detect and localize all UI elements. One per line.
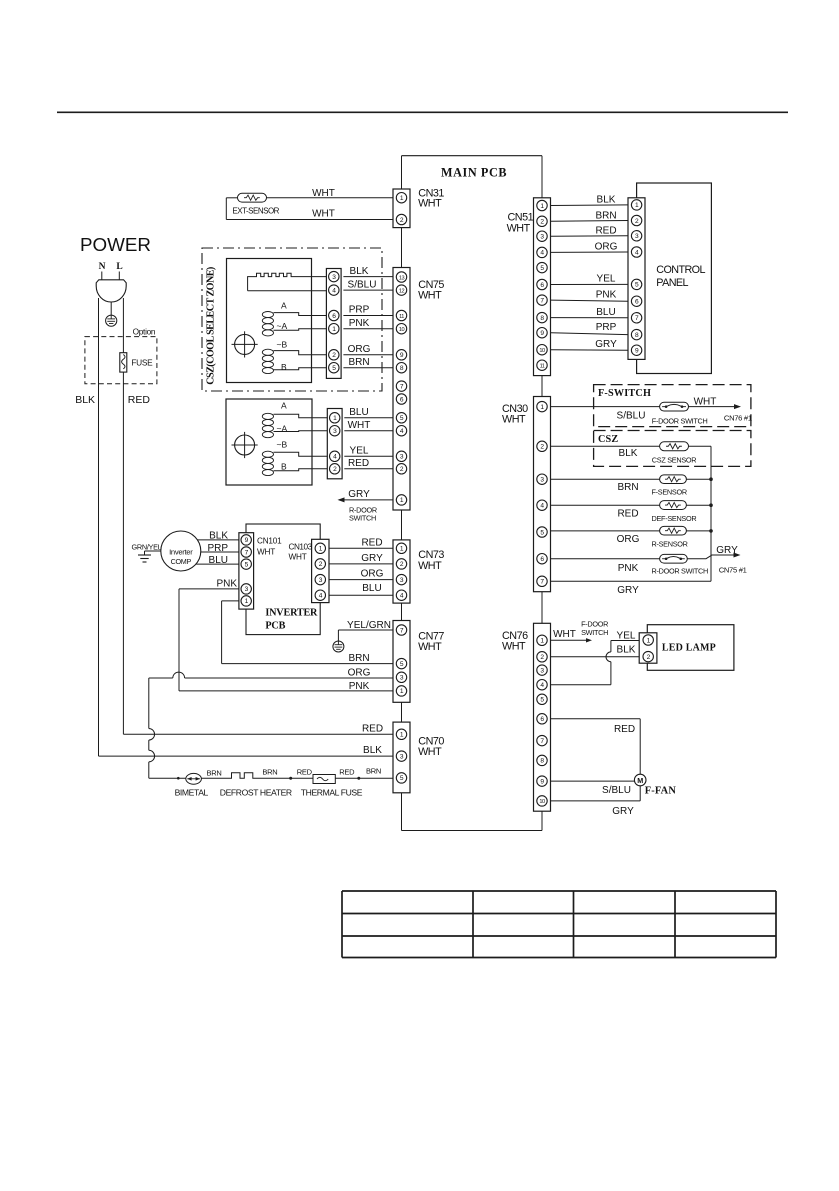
svg-text:INVERTER: INVERTER	[265, 608, 318, 619]
svg-text:BRN: BRN	[262, 767, 277, 776]
svg-text:WHT: WHT	[502, 640, 526, 652]
svg-text:BLK: BLK	[209, 531, 228, 542]
svg-text:RED: RED	[339, 767, 355, 776]
svg-text:PNK: PNK	[349, 318, 370, 329]
svg-text:WHT: WHT	[418, 641, 442, 653]
svg-text:GRY: GRY	[348, 489, 370, 500]
svg-text:ORG: ORG	[348, 344, 371, 355]
svg-text:Inverter: Inverter	[169, 548, 193, 557]
svg-text:L: L	[116, 262, 122, 272]
svg-text:LED LAMP: LED LAMP	[662, 643, 716, 654]
svg-text:BRN: BRN	[595, 211, 616, 222]
svg-text:13: 13	[399, 275, 405, 281]
svg-text:GRY: GRY	[716, 545, 738, 556]
svg-text:RED: RED	[362, 723, 383, 734]
svg-text:BLU: BLU	[349, 407, 368, 418]
svg-text:WHT: WHT	[694, 396, 717, 407]
svg-text:10: 10	[399, 327, 405, 333]
svg-text:~A: ~A	[277, 423, 288, 433]
svg-text:DEFROST HEATER: DEFROST HEATER	[220, 788, 292, 798]
svg-text:CN76 #1: CN76 #1	[724, 414, 752, 423]
svg-text:S/BLU: S/BLU	[348, 279, 377, 290]
svg-text:F-DOOR SWITCH: F-DOOR SWITCH	[652, 417, 708, 426]
svg-text:WHT: WHT	[312, 209, 335, 220]
svg-text:BRN: BRN	[348, 653, 369, 664]
svg-text:11: 11	[540, 364, 545, 370]
svg-text:BLK: BLK	[617, 644, 636, 655]
svg-text:WHT: WHT	[348, 420, 371, 431]
svg-text:GRY: GRY	[612, 806, 634, 817]
svg-text:RED: RED	[361, 538, 382, 549]
svg-text:RED: RED	[348, 458, 369, 469]
svg-text:THERMAL FUSE: THERMAL FUSE	[301, 788, 363, 798]
svg-text:BLU: BLU	[362, 583, 381, 594]
svg-text:WHT: WHT	[502, 414, 526, 426]
svg-text:RED: RED	[128, 394, 151, 406]
svg-text:~A: ~A	[277, 321, 288, 331]
svg-text:PNK: PNK	[349, 681, 370, 692]
svg-text:WHT: WHT	[418, 290, 442, 302]
svg-text:PCB: PCB	[265, 621, 285, 632]
svg-text:R-SENSOR: R-SENSOR	[652, 540, 688, 549]
svg-text:RED: RED	[595, 225, 616, 236]
svg-text:10: 10	[539, 799, 545, 805]
svg-text:PNK: PNK	[216, 579, 237, 590]
svg-text:SWITCH: SWITCH	[581, 628, 608, 637]
svg-text:CN51: CN51	[508, 211, 534, 223]
svg-text:WHT: WHT	[312, 188, 335, 199]
svg-text:WHT: WHT	[553, 629, 576, 640]
svg-text:CN75 #1: CN75 #1	[719, 566, 747, 575]
svg-text:EXT-SENSOR: EXT-SENSOR	[232, 207, 279, 216]
svg-text:CONTROL: CONTROL	[656, 264, 705, 276]
svg-text:RED: RED	[297, 767, 313, 776]
svg-text:WHT: WHT	[418, 198, 442, 210]
svg-text:BLK: BLK	[363, 745, 382, 756]
svg-text:ORG: ORG	[348, 667, 371, 678]
svg-text:F-SENSOR: F-SENSOR	[652, 488, 687, 497]
svg-text:N: N	[99, 262, 106, 272]
svg-text:WHT: WHT	[507, 223, 531, 235]
svg-text:Option: Option	[133, 327, 156, 337]
svg-text:B: B	[281, 462, 287, 472]
svg-text:PRP: PRP	[207, 543, 228, 554]
svg-text:GRY: GRY	[361, 553, 383, 564]
svg-text:BLK: BLK	[597, 195, 616, 206]
svg-text:~B: ~B	[277, 440, 288, 450]
svg-text:YEL: YEL	[597, 274, 616, 285]
svg-text:POWER: POWER	[80, 234, 151, 255]
svg-text:CSZ SENSOR: CSZ SENSOR	[652, 455, 696, 464]
svg-text:WHT: WHT	[257, 548, 275, 557]
svg-text:~B: ~B	[277, 339, 288, 349]
svg-text:RED: RED	[617, 509, 638, 520]
svg-text:BLU: BLU	[209, 555, 228, 566]
svg-text:PNK: PNK	[618, 563, 639, 574]
svg-text:S/BLU: S/BLU	[602, 785, 631, 796]
svg-text:ORG: ORG	[595, 242, 618, 253]
svg-text:BLK: BLK	[619, 448, 638, 459]
svg-text:R-DOOR SWITCH: R-DOOR SWITCH	[652, 567, 709, 576]
svg-text:MAIN PCB: MAIN PCB	[441, 166, 507, 180]
svg-text:11: 11	[399, 314, 404, 320]
svg-text:S/BLU: S/BLU	[617, 410, 646, 421]
svg-text:YEL: YEL	[617, 630, 636, 641]
svg-text:RED: RED	[614, 724, 635, 735]
svg-text:10: 10	[539, 348, 545, 354]
svg-text:CSZ: CSZ	[598, 434, 618, 445]
svg-text:YEL: YEL	[350, 445, 369, 456]
svg-text:YEL/GRN: YEL/GRN	[347, 620, 391, 631]
svg-text:BRN: BRN	[348, 357, 369, 368]
svg-text:GRN/YEL: GRN/YEL	[132, 543, 162, 552]
svg-text:WHT: WHT	[418, 746, 442, 758]
svg-text:F-FAN: F-FAN	[645, 786, 677, 797]
svg-text:BLU: BLU	[596, 307, 615, 318]
svg-text:BRN: BRN	[207, 768, 222, 777]
svg-text:GRY: GRY	[617, 585, 639, 596]
svg-text:PNK: PNK	[596, 289, 617, 300]
svg-text:BRN: BRN	[366, 766, 381, 775]
svg-text:A: A	[281, 401, 287, 411]
svg-text:WHT: WHT	[418, 560, 442, 572]
svg-text:COMP: COMP	[171, 557, 192, 566]
svg-text:BIMETAL: BIMETAL	[175, 788, 209, 798]
svg-text:FUSE: FUSE	[131, 358, 153, 368]
svg-text:A: A	[281, 301, 287, 311]
svg-text:ORG: ORG	[617, 534, 640, 545]
svg-text:GRY: GRY	[595, 339, 617, 350]
svg-text:BRN: BRN	[617, 482, 638, 493]
svg-text:CSZ(COOL SELECT ZONE): CSZ(COOL SELECT ZONE)	[206, 267, 217, 385]
svg-text:BLK: BLK	[75, 394, 95, 406]
svg-text:B: B	[281, 362, 287, 372]
svg-text:DEF-SENSOR: DEF-SENSOR	[652, 514, 697, 523]
svg-text:PRP: PRP	[349, 305, 370, 316]
svg-text:M: M	[637, 776, 643, 785]
svg-text:PANEL: PANEL	[656, 277, 688, 289]
svg-text:SWITCH: SWITCH	[349, 514, 376, 523]
svg-text:ORG: ORG	[361, 569, 384, 580]
svg-text:CN103: CN103	[289, 543, 313, 552]
svg-text:WHT: WHT	[289, 553, 307, 562]
svg-text:F-SWITCH: F-SWITCH	[598, 388, 651, 399]
svg-text:BLK: BLK	[350, 266, 369, 277]
svg-text:12: 12	[399, 288, 405, 294]
svg-text:PRP: PRP	[596, 322, 617, 333]
svg-text:CN101: CN101	[257, 537, 282, 546]
